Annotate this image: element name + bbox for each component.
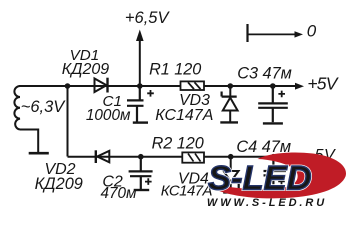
zener VD4 — [230, 157, 232, 171]
plus sign C2 — [145, 178, 152, 185]
arrowhead -5V (under logo) — [295, 153, 304, 160]
plus sign C3 — [278, 91, 285, 98]
resistor R2 — [182, 152, 204, 162]
resistor R1 — [181, 81, 205, 90]
svg-text:1000м: 1000м — [86, 107, 131, 124]
svg-text:+5V: +5V — [307, 74, 339, 94]
node: C3 junction on +5V rail — [270, 83, 276, 89]
inductor winding ~6,3V — [14, 86, 20, 130]
capacitor C2 — [129, 157, 153, 189]
terminal bar under C2 — [134, 189, 150, 191]
svg-text:470м: 470м — [100, 185, 137, 202]
diode VD1 — [95, 79, 107, 93]
arrowhead 0 — [295, 31, 304, 37]
terminal bar common (bottom-left) — [29, 152, 49, 155]
node: VD4 junction on -5V rail — [228, 154, 234, 160]
diode VD2 — [97, 151, 109, 163]
wire AC branch vertical — [67, 86, 69, 157]
arrowhead +5V — [295, 83, 304, 90]
svg-text:КС147А: КС147А — [155, 107, 213, 124]
svg-text:~6,3V: ~6,3V — [21, 98, 67, 116]
capacitor C4 — [264, 157, 287, 196]
svg-text:+6,5V: +6,5V — [125, 9, 171, 27]
watermark logo red crescent — [207, 152, 346, 198]
terminal 0 (top right) — [246, 24, 248, 42]
capacitor C1 — [127, 88, 144, 122]
node: C2 junction on negative rail — [138, 154, 144, 160]
terminal bar under C3 — [263, 122, 283, 124]
wire top rail — [19, 85, 296, 87]
wire coil bottom to common terminal — [20, 130, 38, 153]
svg-text:КД209: КД209 — [35, 175, 83, 193]
wire bottom rail — [68, 156, 297, 158]
svg-text:R1 120: R1 120 — [149, 61, 201, 79]
svg-text:КД209: КД209 — [62, 61, 109, 78]
svg-text:КС147А: КС147А — [161, 183, 213, 200]
watermark S-LED text — [208, 160, 312, 198]
svg-text:S-LED: S-LED — [208, 160, 312, 198]
capacitor C3 — [258, 86, 288, 122]
terminal bar under C4 — [265, 195, 285, 197]
svg-text:0: 0 — [307, 22, 317, 41]
node: C4 junction on -5V rail — [271, 154, 277, 160]
plus sign C1 — [147, 90, 154, 97]
svg-text:C3 47м: C3 47м — [237, 65, 292, 83]
arrowhead +6,5V — [136, 30, 144, 42]
zener VD3 — [229, 86, 231, 96]
terminal bar under VD4 — [223, 191, 240, 193]
node: +6,5V / C1 junction — [137, 83, 143, 89]
terminal bar under VD3 — [220, 121, 238, 123]
plus sign C4 — [278, 178, 285, 185]
svg-text:WWW.S-LED.RU: WWW.S-LED.RU — [207, 197, 327, 209]
svg-text:R2 120: R2 120 — [152, 135, 204, 153]
wire +6,5V arm — [139, 40, 141, 86]
node: AC input / VD1-VD2 branch junction — [65, 83, 71, 89]
node: VD3 junction on +5V rail — [228, 83, 234, 89]
terminal bar under C1 — [133, 121, 148, 123]
